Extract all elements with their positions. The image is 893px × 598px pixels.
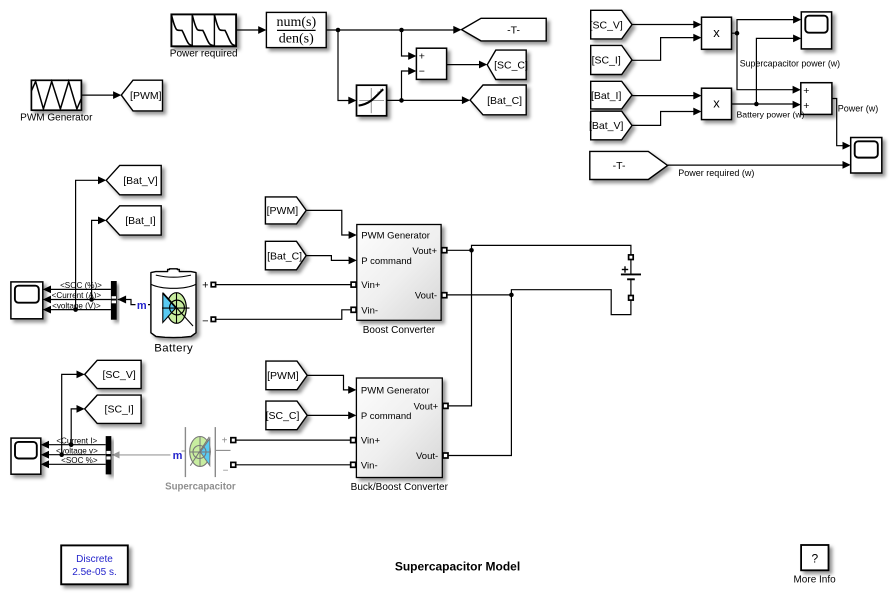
svg-text:PWM Generator: PWM Generator xyxy=(20,113,93,124)
svg-text:<Current I>: <Current I> xyxy=(56,436,97,445)
svg-text:−: − xyxy=(202,316,208,328)
svg-text:+: + xyxy=(803,85,809,97)
svg-text:-T-: -T- xyxy=(613,160,626,172)
svg-text:[SC_V]: [SC_V] xyxy=(103,369,136,381)
svg-text:Vin-: Vin- xyxy=(361,305,378,316)
svg-text:[Bat_V]: [Bat_V] xyxy=(123,175,158,187)
svg-text:P command: P command xyxy=(361,256,412,267)
svg-text:[Bat_I]: [Bat_I] xyxy=(125,215,155,227)
svg-text:<voltage (V)>: <voltage (V)> xyxy=(52,301,101,310)
svg-text:More Info: More Info xyxy=(793,574,836,585)
svg-text:Battery: Battery xyxy=(154,343,193,355)
svg-text:P command: P command xyxy=(361,411,412,422)
svg-text:[Bat_I]: [Bat_I] xyxy=(591,90,621,102)
svg-text:num(s): num(s) xyxy=(276,15,316,30)
svg-text:?: ? xyxy=(811,552,818,566)
svg-text:Battery power (w): Battery power (w) xyxy=(737,109,805,119)
svg-text:−: − xyxy=(419,66,425,78)
svg-text:Supercapacitor power (w): Supercapacitor power (w) xyxy=(740,59,840,69)
svg-text:Power required: Power required xyxy=(170,49,238,60)
svg-text:[PWM]: [PWM] xyxy=(267,370,299,382)
svg-text:Vout-: Vout- xyxy=(415,291,437,302)
svg-text:[Bat_C]: [Bat_C] xyxy=(267,250,302,262)
svg-text:Discrete: Discrete xyxy=(76,554,113,565)
svg-text:Power required (w): Power required (w) xyxy=(678,168,754,178)
svg-text:Supercapacitor Model: Supercapacitor Model xyxy=(395,559,520,573)
svg-text:den(s): den(s) xyxy=(279,31,314,46)
svg-text:2.5e-05 s.: 2.5e-05 s. xyxy=(72,567,116,578)
svg-text:[PWM]: [PWM] xyxy=(267,205,299,217)
svg-text:x: x xyxy=(713,96,720,111)
svg-text:+: + xyxy=(202,279,208,291)
svg-text:PWM Generator: PWM Generator xyxy=(361,230,430,241)
svg-text:Vin+: Vin+ xyxy=(361,280,381,291)
svg-text:<voltage v>: <voltage v> xyxy=(56,446,98,455)
svg-text:[SC_I]: [SC_I] xyxy=(592,55,621,67)
svg-text:[PWM]: [PWM] xyxy=(130,90,162,102)
svg-text:[Bat_V]: [Bat_V] xyxy=(589,120,624,132)
svg-text:Supercapacitor: Supercapacitor xyxy=(165,481,236,492)
svg-text:m: m xyxy=(173,450,183,462)
svg-text:Vout+: Vout+ xyxy=(414,401,439,412)
svg-text:-T-: -T- xyxy=(507,24,520,36)
svg-text:Vout-: Vout- xyxy=(416,451,438,462)
svg-text:<SOC (%)>: <SOC (%)> xyxy=(60,281,102,290)
svg-text:Power (w): Power (w) xyxy=(838,104,879,114)
svg-text:PWM Generator: PWM Generator xyxy=(361,386,430,397)
svg-text:x: x xyxy=(713,25,720,40)
svg-text:<Current (A)>: <Current (A)> xyxy=(52,291,102,300)
svg-text:[SC_C]: [SC_C] xyxy=(494,60,528,72)
svg-text:Vout+: Vout+ xyxy=(412,246,437,257)
svg-text:Buck/Boost Converter: Buck/Boost Converter xyxy=(351,482,449,493)
svg-text:−: − xyxy=(223,466,229,477)
svg-text:[SC_C]: [SC_C] xyxy=(266,410,300,422)
svg-text:[Bat_C]: [Bat_C] xyxy=(487,95,522,107)
svg-text:Vin-: Vin- xyxy=(361,460,378,471)
svg-text:+: + xyxy=(222,436,228,447)
svg-text:Boost Converter: Boost Converter xyxy=(363,325,436,336)
svg-text:[SC_V]: [SC_V] xyxy=(590,19,623,31)
svg-text:+: + xyxy=(419,51,425,63)
svg-text:Vin+: Vin+ xyxy=(361,436,381,447)
svg-text:<SOC %>: <SOC %> xyxy=(61,456,98,465)
svg-text:m: m xyxy=(137,300,147,312)
svg-text:[SC_I]: [SC_I] xyxy=(105,404,134,416)
